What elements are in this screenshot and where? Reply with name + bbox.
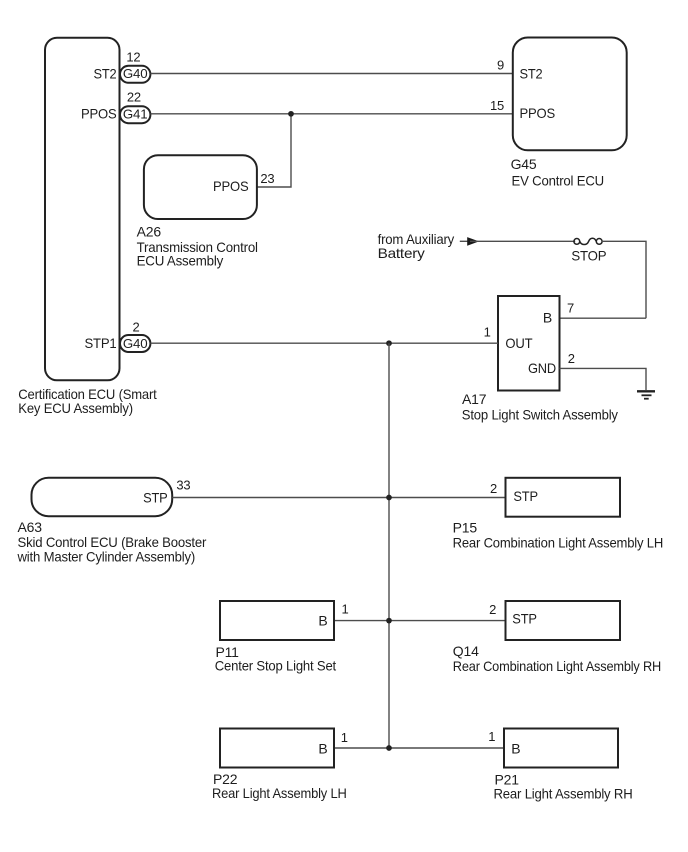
svg-text:ST2: ST2 (520, 65, 543, 81)
wire B pin (560, 317, 647, 319)
P22 Rear Light Assembly LH body (212, 729, 348, 802)
svg-text:B: B (318, 613, 327, 629)
connector G41 pin 22 (120, 90, 150, 124)
Q14 Rear Combination Light Assembly RH body (453, 601, 661, 674)
svg-text:G45: G45 (511, 156, 537, 172)
svg-text:1: 1 (484, 324, 491, 339)
P21 Rear Light Assembly RH body (488, 729, 632, 802)
svg-text:Key ECU Assembly): Key ECU Assembly) (18, 400, 133, 416)
svg-text:ST2: ST2 (94, 65, 117, 81)
svg-text:B: B (318, 740, 327, 756)
from Auxiliary Battery source label (378, 231, 455, 261)
junction STP1 node (386, 340, 392, 346)
connector G40 pin 2 (120, 320, 150, 353)
svg-text:7: 7 (567, 301, 574, 316)
svg-text:1: 1 (342, 602, 349, 617)
svg-text:12: 12 (126, 50, 140, 65)
svg-text:22: 22 (127, 90, 141, 105)
wire GND pin (560, 368, 647, 390)
svg-text:2: 2 (568, 351, 575, 366)
junction rear light node (386, 745, 392, 751)
svg-text:PPOS: PPOS (81, 106, 117, 122)
svg-text:STOP: STOP (571, 248, 606, 264)
svg-text:A26: A26 (137, 224, 162, 240)
svg-text:B: B (511, 740, 520, 756)
svg-text:G40: G40 (123, 66, 148, 81)
svg-text:1: 1 (488, 729, 495, 744)
wire STP net (172, 497, 505, 499)
svg-text:2: 2 (490, 481, 497, 496)
svg-text:2: 2 (489, 602, 496, 617)
arrow feed (460, 237, 479, 246)
junction STP node (386, 495, 392, 501)
A63 Skid Control ECU body (17, 477, 207, 564)
wire center stop row (334, 620, 506, 622)
wire fuse to switch B (602, 241, 646, 318)
svg-text:2: 2 (133, 320, 140, 335)
svg-text:OUT: OUT (505, 335, 533, 351)
wire PPOS net (150, 113, 512, 115)
P11 Center Stop Light Set body (215, 601, 349, 674)
svg-text:Rear Light Assembly LH: Rear Light Assembly LH (212, 785, 347, 801)
svg-text:G40: G40 (123, 336, 148, 351)
svg-text:Rear Combination Light Assembl: Rear Combination Light Assembly LH (453, 534, 663, 550)
svg-text:P15: P15 (453, 520, 478, 536)
svg-text:Rear Light Assembly RH: Rear Light Assembly RH (494, 786, 633, 802)
svg-text:GND: GND (528, 360, 556, 376)
svg-text:33: 33 (176, 477, 190, 492)
A26 Transmission Control ECU Assembly body (137, 155, 275, 269)
svg-text:Center Stop Light Set: Center Stop Light Set (215, 658, 336, 674)
fuse STOP (571, 238, 606, 263)
svg-text:Q14: Q14 (453, 643, 479, 659)
svg-text:A17: A17 (462, 391, 487, 407)
svg-text:EV Control ECU: EV Control ECU (512, 173, 605, 189)
wire rear light row (334, 747, 504, 749)
svg-text:A63: A63 (18, 519, 43, 535)
wire stop lamp bus (388, 343, 390, 748)
wire A26 PPOS branch (257, 114, 291, 187)
svg-text:B: B (543, 309, 552, 325)
junction PPOS node (288, 111, 294, 117)
P15 Rear Combination Light Assembly LH body (453, 478, 663, 551)
svg-text:ECU Assembly: ECU Assembly (137, 253, 224, 269)
svg-text:STP: STP (143, 489, 168, 505)
svg-text:STP: STP (513, 488, 538, 504)
ground symbol (637, 391, 655, 398)
wire ST2 net (150, 73, 512, 75)
svg-text:Rear Combination Light Assembl: Rear Combination Light Assembly RH (453, 658, 661, 674)
svg-text:STP1: STP1 (85, 335, 117, 351)
svg-text:23: 23 (260, 171, 274, 186)
svg-text:1: 1 (341, 730, 348, 745)
connector G40 pin 12 (120, 50, 150, 83)
wire STP1 / OUT net (150, 342, 498, 344)
wire auxiliary feed (470, 240, 575, 242)
svg-text:Stop Light Switch Assembly: Stop Light Switch Assembly (462, 406, 618, 422)
svg-text:Battery: Battery (378, 245, 425, 261)
svg-text:STP: STP (512, 611, 537, 627)
svg-text:with Master Cylinder Assembly): with Master Cylinder Assembly) (17, 549, 196, 565)
svg-text:PPOS: PPOS (213, 178, 249, 194)
svg-text:9: 9 (497, 57, 504, 72)
svg-text:15: 15 (490, 98, 504, 113)
Certification ECU (Smart Key ECU Assembly) body (18, 38, 157, 416)
svg-text:PPOS: PPOS (520, 105, 556, 121)
svg-text:G41: G41 (123, 107, 148, 122)
junction center stop node (386, 618, 392, 624)
G45 EV Control ECU body (490, 38, 627, 189)
A17 Stop Light Switch Assembly body (462, 296, 618, 422)
